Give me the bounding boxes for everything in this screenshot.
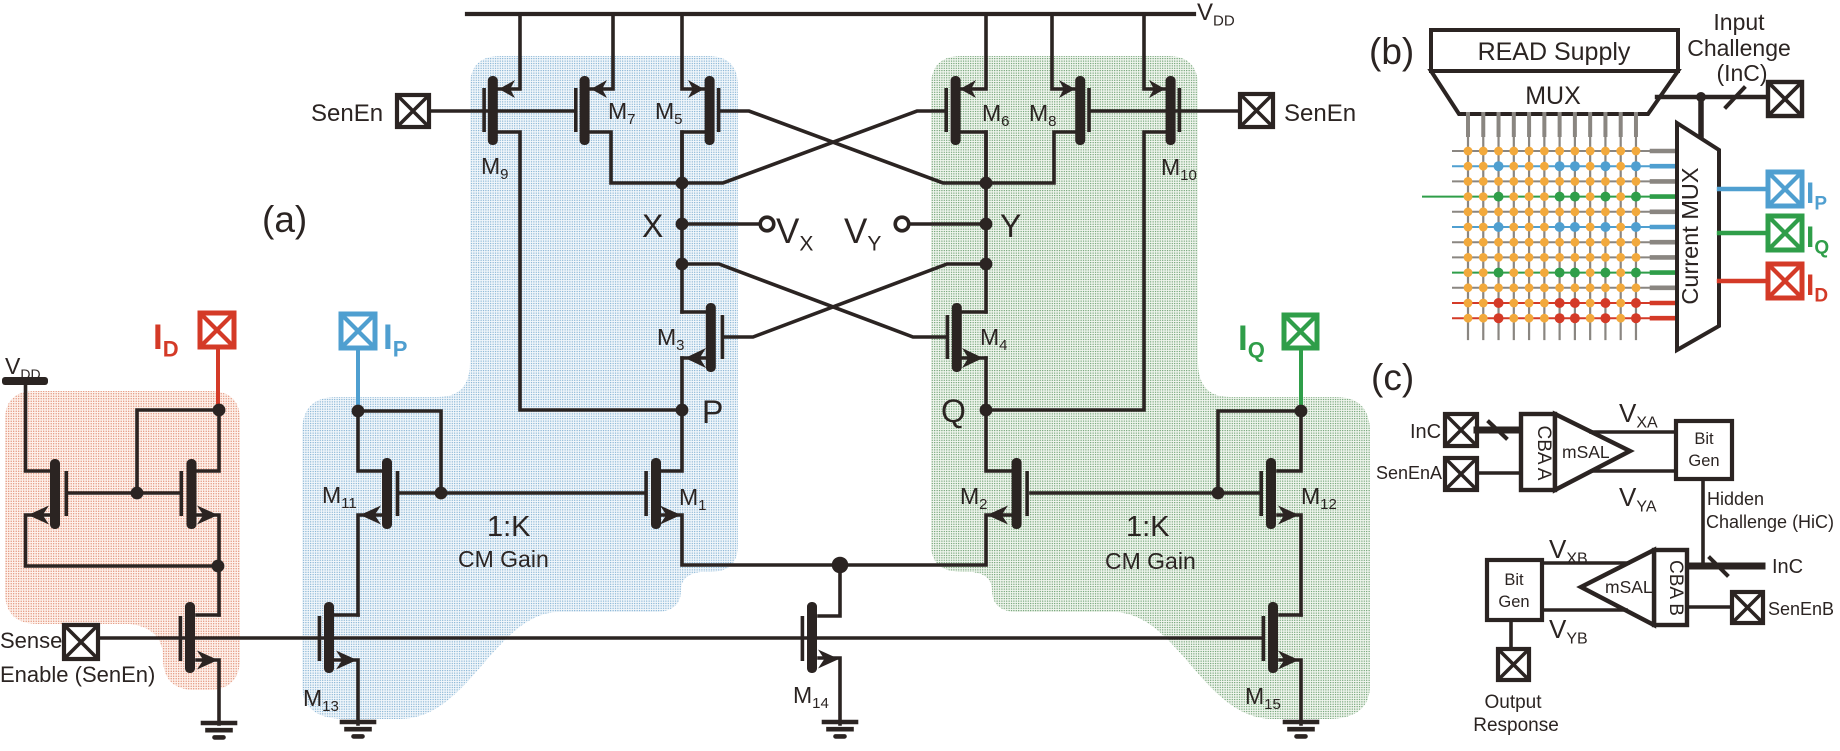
svg-text:READ Supply: READ Supply bbox=[1478, 38, 1631, 66]
svg-text:Response: Response bbox=[1473, 715, 1559, 736]
svg-text:(b): (b) bbox=[1369, 31, 1414, 72]
svg-text:Y: Y bbox=[1000, 208, 1021, 244]
svg-text:Q: Q bbox=[941, 393, 966, 429]
svg-text:Sense: Sense bbox=[0, 628, 62, 653]
svg-text:Challenge (HiC): Challenge (HiC) bbox=[1706, 512, 1834, 532]
svg-text:(InC): (InC) bbox=[1716, 60, 1767, 86]
svg-text:1:K: 1:K bbox=[487, 511, 531, 543]
svg-text:1:K: 1:K bbox=[1126, 511, 1170, 543]
svg-text:CM Gain: CM Gain bbox=[1105, 548, 1196, 574]
svg-text:mSAL: mSAL bbox=[1605, 577, 1653, 597]
svg-text:MUX: MUX bbox=[1525, 82, 1581, 110]
svg-text:P: P bbox=[702, 394, 723, 430]
svg-text:Hidden: Hidden bbox=[1707, 489, 1764, 509]
svg-text:SenEnB: SenEnB bbox=[1768, 599, 1834, 619]
svg-text:SenEnA: SenEnA bbox=[1376, 463, 1442, 483]
svg-text:SenEn: SenEn bbox=[1284, 100, 1356, 127]
svg-text:CBA B: CBA B bbox=[1665, 560, 1686, 616]
svg-text:CM Gain: CM Gain bbox=[458, 546, 549, 572]
svg-text:Enable (SenEn): Enable (SenEn) bbox=[0, 662, 155, 687]
svg-text:Challenge: Challenge bbox=[1687, 35, 1791, 61]
svg-text:InC: InC bbox=[1410, 421, 1441, 443]
svg-text:Bit: Bit bbox=[1504, 571, 1524, 589]
svg-text:SenEn: SenEn bbox=[311, 100, 383, 127]
svg-text:Current MUX: Current MUX bbox=[1677, 167, 1703, 304]
svg-text:mSAL: mSAL bbox=[1562, 442, 1610, 462]
svg-text:Gen: Gen bbox=[1498, 593, 1529, 611]
svg-text:Input: Input bbox=[1713, 9, 1765, 35]
svg-text:(a): (a) bbox=[262, 199, 307, 240]
svg-text:Bit: Bit bbox=[1694, 430, 1714, 448]
svg-text:InC: InC bbox=[1772, 556, 1803, 578]
svg-text:(c): (c) bbox=[1371, 357, 1414, 398]
svg-text:CBA A: CBA A bbox=[1533, 426, 1554, 481]
svg-text:X: X bbox=[642, 208, 663, 244]
svg-text:Gen: Gen bbox=[1688, 452, 1719, 470]
svg-text:Output: Output bbox=[1484, 692, 1542, 713]
